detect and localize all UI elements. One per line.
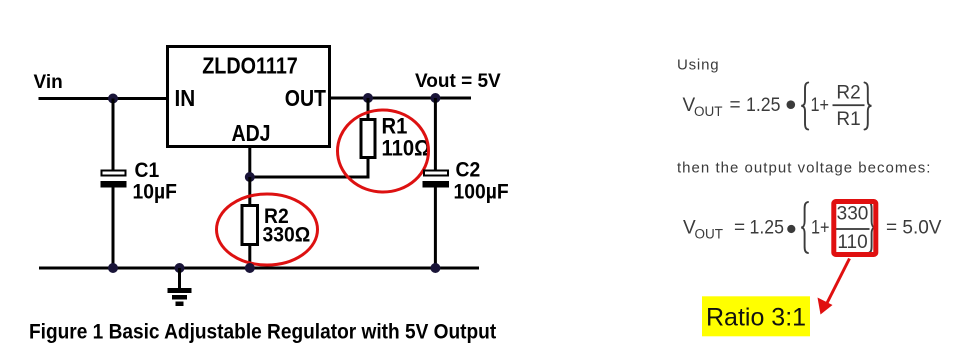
highlight ellipse around R1	[338, 110, 429, 192]
junction OUT/C2	[430, 93, 440, 103]
svg-text:R1: R1	[382, 115, 408, 139]
highlight ellipse around R2	[217, 194, 318, 265]
svg-text:Ratio 3:1: Ratio 3:1	[706, 304, 806, 332]
svg-text:IN: IN	[175, 85, 196, 111]
wire input Vin to IN pin	[39, 97, 168, 100]
wire R1 top lead	[367, 98, 370, 120]
svg-text:C1: C1	[135, 159, 160, 182]
wire ADJ pin down	[248, 147, 251, 178]
svg-text:Vout = 5V: Vout = 5V	[415, 71, 501, 92]
wire C2 top lead	[434, 98, 437, 171]
junction input/C1	[108, 94, 118, 104]
formula 1 Vout = 1.25 x (1 + R2/R1)	[683, 83, 872, 131]
wire C1 top lead	[112, 99, 115, 171]
label C1 value 10uF	[133, 159, 177, 203]
svg-text:Vin: Vin	[34, 72, 63, 93]
svg-text:=: =	[730, 95, 741, 116]
svg-text:1.25: 1.25	[750, 218, 785, 239]
wire R1 bottom lead to ADJ node	[250, 157, 368, 177]
svg-text:330Ω: 330Ω	[263, 224, 311, 247]
junction rail/C1	[108, 263, 118, 273]
svg-text:100µF: 100µF	[454, 181, 509, 204]
svg-text:ZLDO1117: ZLDO1117	[202, 53, 298, 79]
junction rail/R2	[245, 263, 255, 273]
label R1 value 110ohm	[382, 115, 431, 161]
svg-text:C2: C2	[456, 159, 481, 182]
svg-text:1+: 1+	[811, 95, 830, 116]
resistor R2	[242, 206, 258, 245]
junction rail/C2	[430, 263, 440, 273]
svg-text:110: 110	[837, 232, 867, 253]
svg-text:Figure 1 Basic Adjustable Regu: Figure 1 Basic Adjustable Regulator with…	[29, 321, 497, 344]
svg-text:R2: R2	[836, 83, 860, 104]
capacitor C1	[101, 171, 127, 188]
wire R2 bottom lead	[248, 244, 251, 268]
formula 2 Vout = 1.25 x (1 + 330/110) = 5.0V	[683, 202, 942, 253]
ground	[168, 268, 192, 306]
resistor R1	[361, 120, 375, 158]
regulator U1 ZLDO1117	[168, 47, 330, 147]
highlight red box around 330/110	[834, 202, 876, 255]
wire C2 bottom lead	[434, 188, 437, 269]
junction rail/ground	[175, 263, 185, 273]
svg-text:=: =	[734, 218, 745, 239]
note Ratio 3:1 highlighted yellow	[702, 296, 810, 336]
capacitor C2	[423, 171, 450, 188]
svg-text:= 5.0V: = 5.0V	[886, 218, 942, 239]
label R2 value 330ohm	[263, 205, 311, 246]
wire ground rail	[39, 267, 479, 270]
svg-text:10µF: 10µF	[133, 181, 177, 204]
wire OUT pin to Vout	[331, 97, 471, 100]
svg-text:OUT: OUT	[694, 104, 723, 119]
junction OUT/R1	[363, 93, 373, 103]
wire R2 top lead	[248, 177, 251, 205]
svg-text:OUT: OUT	[695, 227, 724, 242]
svg-text:ADJ: ADJ	[231, 121, 270, 147]
svg-text:then the output voltage become: then the output voltage becomes:	[677, 160, 931, 177]
wire C1 bottom lead	[112, 188, 115, 269]
svg-text:110Ω: 110Ω	[382, 137, 431, 161]
svg-text:330: 330	[837, 204, 869, 225]
label C2 value 100uF	[454, 159, 509, 204]
svg-text:OUT: OUT	[285, 86, 326, 112]
svg-text:1+: 1+	[811, 218, 830, 239]
svg-text:Using: Using	[677, 57, 719, 74]
junction ADJ/R1/R2	[245, 172, 255, 182]
arrow from red box to ratio note	[818, 259, 850, 315]
svg-text:1.25: 1.25	[746, 95, 781, 116]
svg-text:R1: R1	[836, 109, 860, 130]
